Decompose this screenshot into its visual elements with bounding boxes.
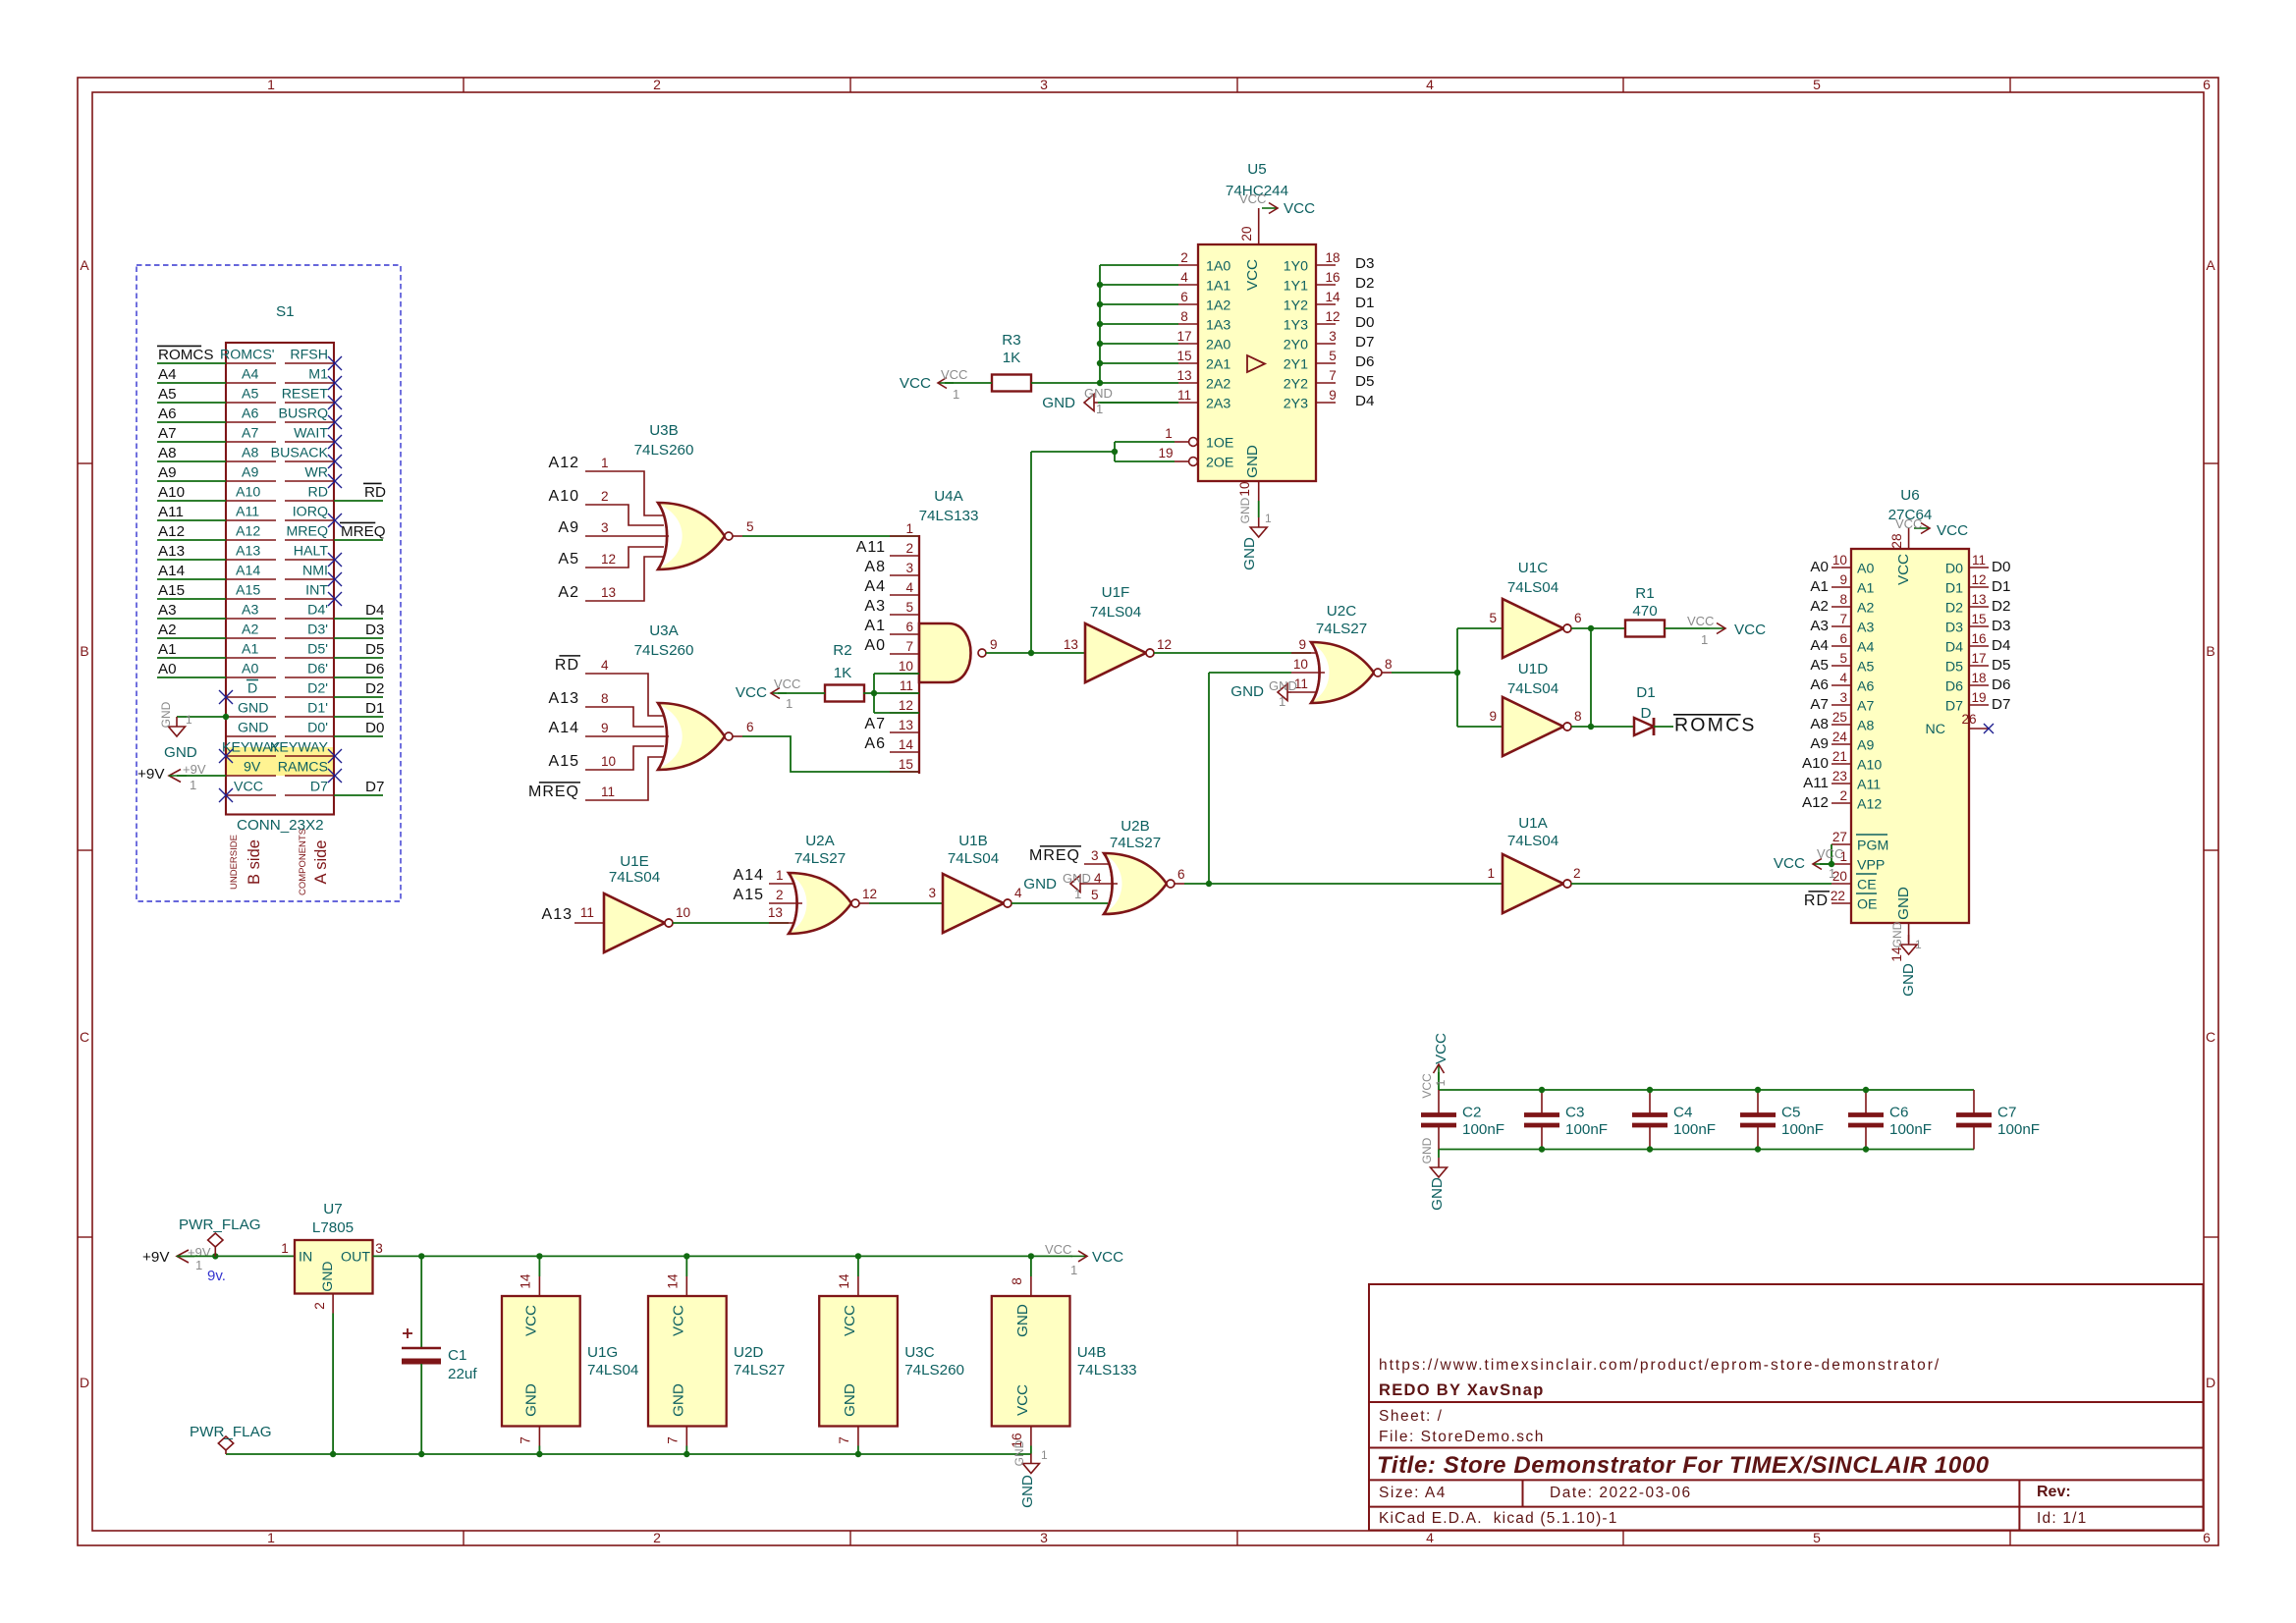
svg-text:8: 8 bbox=[1574, 709, 1582, 724]
svg-text:GND: GND bbox=[238, 701, 269, 717]
svg-text:9: 9 bbox=[990, 637, 998, 652]
svg-text:D: D bbox=[247, 681, 257, 697]
U2C output pin 8 bbox=[1374, 657, 1393, 676]
title block comment REDO BY XavSnap bbox=[1379, 1381, 1545, 1399]
svg-text:10: 10 bbox=[676, 905, 691, 920]
svg-text:R1: R1 bbox=[1635, 585, 1654, 602]
svg-text:3: 3 bbox=[1040, 77, 1048, 92]
svg-text:A11: A11 bbox=[1857, 778, 1881, 793]
svg-text:Rev:: Rev: bbox=[2037, 1484, 2071, 1500]
svg-text:5: 5 bbox=[1489, 611, 1497, 625]
wire U1A out to U6 CE bbox=[1591, 883, 1831, 885]
svg-text:A13: A13 bbox=[549, 690, 579, 707]
svg-text:GND: GND bbox=[1900, 963, 1917, 997]
svg-text:Sheet: /: Sheet: / bbox=[1379, 1408, 1443, 1425]
U3B input pin 3 net A9 bbox=[558, 519, 669, 536]
svg-text:5: 5 bbox=[1813, 77, 1821, 92]
U5 pin 8 1A3 bbox=[1178, 309, 1230, 334]
svg-text:1: 1 bbox=[601, 456, 609, 470]
svg-text:WAIT: WAIT bbox=[294, 426, 328, 442]
svg-text:10: 10 bbox=[1237, 481, 1252, 497]
title block frame bbox=[1369, 1284, 2204, 1531]
svg-text:A3: A3 bbox=[1857, 621, 1874, 636]
svg-text:A11: A11 bbox=[158, 504, 184, 520]
power VCC at R2 bbox=[736, 676, 825, 711]
U2A pin 2 net A15 bbox=[734, 887, 802, 903]
inverter U1D 74LS04 bbox=[1489, 661, 1581, 756]
svg-text:D3: D3 bbox=[1992, 618, 2010, 634]
svg-text:RFSH: RFSH bbox=[290, 348, 328, 363]
U4A pin 5 net A3 bbox=[864, 598, 919, 615]
gate U2A 74LS27 body bbox=[789, 833, 851, 934]
svg-text:PGM: PGM bbox=[1857, 839, 1888, 854]
svg-text:3: 3 bbox=[375, 1241, 383, 1256]
U3A input pin 10 net A15 bbox=[549, 746, 664, 770]
U5 pin 17 2A0 bbox=[1176, 329, 1230, 353]
svg-text:D2: D2 bbox=[1355, 275, 1374, 292]
S1 pin row 17 (A0 / D6') bbox=[157, 661, 334, 677]
svg-text:C4: C4 bbox=[1673, 1105, 1692, 1121]
svg-text:A2: A2 bbox=[242, 622, 258, 638]
svg-text:A3: A3 bbox=[242, 603, 258, 619]
svg-text:GND: GND bbox=[1429, 1177, 1446, 1211]
svg-text:1: 1 bbox=[186, 713, 192, 727]
svg-text:A9: A9 bbox=[242, 465, 258, 481]
wire R2 to U4A pins 10 11 12 bbox=[863, 674, 919, 713]
svg-text:R2: R2 bbox=[833, 642, 851, 659]
U6 pin 6 A4 bbox=[1810, 631, 1874, 656]
svg-text:74LS260: 74LS260 bbox=[904, 1362, 964, 1379]
U5 pin 18 1Y0 label D3 bbox=[1284, 250, 1375, 275]
svg-text:2: 2 bbox=[653, 77, 661, 92]
svg-text:4: 4 bbox=[1180, 270, 1188, 285]
wire U5 OE tie bbox=[1031, 442, 1175, 653]
capacitor C4 100nF bbox=[1632, 1087, 1716, 1153]
svg-text:KiCad E.D.A. kicad (5.1.10)-1: KiCad E.D.A. kicad (5.1.10)-1 bbox=[1379, 1510, 1618, 1527]
capacitor C5 100nF bbox=[1740, 1087, 1824, 1153]
U3A input pin 4 net RD bbox=[555, 656, 664, 716]
svg-text:U3C: U3C bbox=[904, 1344, 934, 1361]
svg-text:13: 13 bbox=[601, 585, 616, 600]
svg-text:18: 18 bbox=[1325, 250, 1339, 265]
svg-text:A9: A9 bbox=[558, 519, 579, 536]
svg-text:D6: D6 bbox=[365, 661, 384, 677]
svg-text:C3: C3 bbox=[1565, 1105, 1584, 1121]
svg-text:U4B: U4B bbox=[1077, 1344, 1107, 1361]
wire U2B out to U1A bbox=[1184, 881, 1503, 887]
svg-text:19: 19 bbox=[1158, 446, 1173, 460]
svg-text:VCC: VCC bbox=[1244, 259, 1261, 291]
U6 pin 27 PGM bbox=[1831, 830, 1888, 854]
svg-text:15: 15 bbox=[1971, 612, 1986, 626]
svg-text:A1: A1 bbox=[1810, 578, 1829, 595]
power VCC at U5 pin 20 bbox=[1239, 191, 1315, 244]
power GND at U5 pin 10 bbox=[1237, 481, 1272, 570]
svg-text:GND: GND bbox=[159, 701, 173, 728]
svg-text:14: 14 bbox=[518, 1273, 532, 1289]
svg-text:74LS27: 74LS27 bbox=[1110, 835, 1161, 851]
svg-text:1: 1 bbox=[1829, 866, 1835, 881]
power flag PWR_FLAG at +9V bbox=[179, 1217, 261, 1256]
svg-text:11: 11 bbox=[900, 678, 913, 693]
svg-text:2: 2 bbox=[776, 888, 784, 902]
svg-text:A1: A1 bbox=[1857, 581, 1874, 597]
svg-text:MREQ: MREQ bbox=[286, 524, 328, 540]
svg-text:1: 1 bbox=[281, 1241, 289, 1256]
regulator U7 L7805 bbox=[281, 1201, 383, 1310]
svg-text:2Y0: 2Y0 bbox=[1284, 338, 1308, 353]
svg-text:A1: A1 bbox=[864, 618, 886, 634]
svg-text:VCC: VCC bbox=[900, 375, 931, 392]
S1 right wire and label D4 bbox=[334, 602, 384, 619]
svg-text:8: 8 bbox=[601, 691, 609, 706]
svg-text:A4: A4 bbox=[1810, 637, 1829, 654]
S1 pin row 10 (A12 / MREQ) bbox=[157, 523, 334, 540]
U3B input pin 12 net A5 bbox=[558, 547, 664, 568]
power GND at C2 rail bbox=[1420, 1137, 1448, 1211]
svg-text:1K: 1K bbox=[834, 665, 852, 681]
svg-text:100nF: 100nF bbox=[1781, 1121, 1824, 1138]
svg-text:C5: C5 bbox=[1781, 1105, 1800, 1121]
wire GND bottom rail bbox=[226, 1453, 1031, 1455]
U6 pin 19 D7 bbox=[1945, 690, 2011, 715]
S1 pin row 20 (GND / D0') bbox=[226, 721, 334, 737]
S1 pin row 13 (A15 / INT) bbox=[157, 582, 342, 606]
capacitor C6 100nF bbox=[1848, 1087, 1932, 1153]
svg-text:File: StoreDemo.sch: File: StoreDemo.sch bbox=[1379, 1429, 1545, 1445]
power GND at U4B pin 16 bbox=[1012, 1439, 1048, 1508]
U6 pin 11 D0 bbox=[1945, 553, 2011, 577]
svg-text:U2B: U2B bbox=[1121, 818, 1150, 835]
svg-text:14: 14 bbox=[899, 737, 914, 752]
svg-text:D5': D5' bbox=[307, 642, 328, 658]
svg-text:GND: GND bbox=[1019, 1475, 1036, 1508]
svg-text:4: 4 bbox=[601, 658, 609, 673]
U3A input pin 8 net A13 bbox=[549, 690, 664, 727]
svg-text:D2: D2 bbox=[1945, 601, 1963, 617]
svg-text:RD: RD bbox=[308, 485, 329, 501]
svg-text:6: 6 bbox=[1177, 867, 1185, 882]
svg-text:26: 26 bbox=[1961, 712, 1976, 727]
title block id bbox=[2037, 1510, 2088, 1527]
svg-text:13: 13 bbox=[1064, 637, 1078, 652]
svg-text:D5: D5 bbox=[1355, 373, 1374, 390]
svg-text:U5: U5 bbox=[1247, 161, 1266, 178]
svg-text:6: 6 bbox=[905, 620, 913, 634]
svg-text:14: 14 bbox=[665, 1273, 680, 1289]
resistor R1 470 bbox=[1625, 585, 1665, 637]
svg-text:U1E: U1E bbox=[620, 853, 649, 870]
gate U3B 74LS260 body bbox=[634, 422, 725, 569]
svg-text:D2: D2 bbox=[365, 680, 384, 697]
U5 pin 15 2A1 bbox=[1176, 349, 1230, 373]
svg-text:A4: A4 bbox=[242, 367, 258, 383]
wire U1C U1D outputs tie bbox=[1571, 625, 1634, 730]
svg-text:10: 10 bbox=[1832, 553, 1848, 568]
svg-text:74LS04: 74LS04 bbox=[1507, 833, 1558, 849]
U4A pin 1 bbox=[890, 521, 919, 536]
svg-text:12: 12 bbox=[1325, 309, 1339, 324]
svg-text:6: 6 bbox=[2203, 77, 2211, 92]
svg-text:7: 7 bbox=[665, 1436, 680, 1444]
U4A pin 15 bbox=[890, 757, 919, 772]
svg-text:9: 9 bbox=[1329, 388, 1337, 403]
wire +9V to U7 IN bbox=[177, 1253, 295, 1259]
svg-text:1: 1 bbox=[1165, 426, 1173, 441]
svg-text:9v.: 9v. bbox=[207, 1268, 226, 1284]
svg-text:15: 15 bbox=[1176, 349, 1191, 363]
capacitor C3 100nF bbox=[1524, 1087, 1608, 1153]
svg-text:A14: A14 bbox=[734, 867, 764, 884]
svg-text:A14: A14 bbox=[236, 564, 260, 579]
U4A pin 2 net A11 bbox=[856, 539, 919, 556]
svg-text:1: 1 bbox=[1070, 1263, 1077, 1277]
svg-text:A4: A4 bbox=[864, 578, 886, 595]
svg-text:16: 16 bbox=[1325, 270, 1339, 285]
U5 pin 2 1A0 bbox=[1178, 250, 1230, 275]
svg-text:VCC: VCC bbox=[736, 684, 767, 701]
svg-text:A3: A3 bbox=[158, 602, 177, 619]
svg-text:A4: A4 bbox=[1857, 640, 1874, 656]
svg-text:12: 12 bbox=[1157, 637, 1172, 652]
svg-text:18: 18 bbox=[1971, 671, 1986, 685]
svg-text:D0: D0 bbox=[1992, 559, 2010, 575]
svg-text:VCC: VCC bbox=[1239, 191, 1266, 206]
power VCC at R3 bbox=[900, 367, 992, 402]
svg-text:15: 15 bbox=[899, 757, 913, 772]
svg-text:10: 10 bbox=[601, 754, 617, 769]
svg-text:A5: A5 bbox=[1857, 660, 1874, 676]
svg-text:GND: GND bbox=[1890, 921, 1904, 947]
svg-text:NMI: NMI bbox=[302, 564, 328, 579]
svg-text:A9: A9 bbox=[1857, 738, 1874, 754]
svg-text:U1G: U1G bbox=[587, 1344, 618, 1361]
svg-text:RD: RD bbox=[364, 484, 386, 501]
svg-text:6: 6 bbox=[1180, 290, 1188, 304]
svg-text:1: 1 bbox=[786, 696, 793, 711]
svg-text:10: 10 bbox=[1293, 657, 1309, 672]
svg-text:D7: D7 bbox=[365, 779, 384, 795]
svg-text:A10: A10 bbox=[158, 484, 185, 501]
svg-text:2Y2: 2Y2 bbox=[1284, 377, 1308, 393]
svg-text:D4: D4 bbox=[1945, 640, 1963, 656]
svg-text:VCC: VCC bbox=[1817, 846, 1843, 861]
svg-text:13: 13 bbox=[768, 905, 783, 920]
svg-text:A5: A5 bbox=[558, 551, 579, 568]
svg-text:BUSRQ: BUSRQ bbox=[279, 406, 328, 422]
svg-text:VCC: VCC bbox=[1734, 622, 1766, 638]
wire U2B out up to U2C pin 10 bbox=[1209, 673, 1291, 884]
svg-text:BUSACK: BUSACK bbox=[271, 446, 329, 461]
svg-text:PWR_FLAG: PWR_FLAG bbox=[179, 1217, 261, 1233]
svg-text:9: 9 bbox=[601, 721, 609, 735]
svg-text:A13: A13 bbox=[158, 543, 185, 560]
U6 pin 22 OE bbox=[1831, 889, 1878, 913]
svg-text:5: 5 bbox=[1813, 1530, 1821, 1545]
svg-text:2A0: 2A0 bbox=[1206, 338, 1230, 353]
svg-text:2: 2 bbox=[1180, 250, 1188, 265]
svg-text:22uf: 22uf bbox=[448, 1366, 477, 1382]
svg-text:VCC: VCC bbox=[941, 367, 967, 382]
svg-text:D: D bbox=[80, 1375, 89, 1390]
svg-text:WR: WR bbox=[304, 465, 328, 481]
U3B input pin 13 net A2 bbox=[558, 557, 664, 601]
U6 pin 25 A8 bbox=[1810, 710, 1874, 734]
U2A pin 13 bbox=[768, 905, 793, 923]
svg-text:11: 11 bbox=[601, 784, 615, 799]
+9V power symbol at S1 bbox=[137, 762, 226, 792]
svg-text:100nF: 100nF bbox=[1997, 1121, 2040, 1138]
svg-text:A1: A1 bbox=[158, 641, 177, 658]
svg-text:https://www.timexsinclair.com/: https://www.timexsinclair.com/product/ep… bbox=[1379, 1357, 1941, 1374]
svg-text:5: 5 bbox=[1091, 888, 1099, 902]
svg-text:13: 13 bbox=[1971, 592, 1986, 607]
S1 pin row 19 (GND / D1') bbox=[226, 701, 334, 718]
svg-text:+9V: +9V bbox=[142, 1249, 170, 1266]
power flag PWR_FLAG at GND rail bbox=[190, 1424, 272, 1454]
S1 pin row 15 (A2 / D3') bbox=[157, 622, 334, 638]
svg-text:D0: D0 bbox=[365, 720, 384, 736]
svg-text:13: 13 bbox=[899, 718, 913, 732]
svg-text:2: 2 bbox=[1839, 788, 1847, 803]
svg-text:A12: A12 bbox=[1802, 794, 1829, 811]
svg-text:D: D bbox=[1641, 705, 1652, 722]
capacitor C1 22uf bbox=[402, 1256, 477, 1457]
svg-text:17: 17 bbox=[1971, 651, 1986, 666]
svg-text:9: 9 bbox=[1839, 572, 1847, 587]
svg-text:A12: A12 bbox=[158, 523, 185, 540]
inverter U1F 74LS04 bbox=[1064, 584, 1172, 682]
wire GND rail for caps bbox=[1439, 1149, 1974, 1151]
svg-text:2: 2 bbox=[653, 1530, 661, 1545]
svg-text:GND: GND bbox=[1420, 1137, 1434, 1163]
svg-text:VCC: VCC bbox=[1092, 1249, 1123, 1266]
svg-text:GND: GND bbox=[1238, 497, 1252, 523]
svg-text:GND: GND bbox=[1063, 871, 1091, 886]
svg-text:A10: A10 bbox=[549, 488, 579, 505]
svg-text:GND: GND bbox=[1042, 395, 1075, 411]
svg-text:ROMCS: ROMCS bbox=[158, 347, 214, 363]
svg-text:19: 19 bbox=[1971, 690, 1986, 705]
svg-text:U1C: U1C bbox=[1518, 560, 1548, 576]
S1 side note COMPONENTS A side bbox=[298, 829, 330, 895]
svg-text:D3: D3 bbox=[365, 622, 384, 638]
U6 pin 18 D6 bbox=[1945, 671, 2011, 695]
svg-text:3: 3 bbox=[1091, 848, 1099, 863]
svg-text:C1: C1 bbox=[448, 1347, 466, 1364]
svg-text:+9V: +9V bbox=[183, 762, 206, 777]
svg-text:D4: D4 bbox=[1355, 393, 1374, 409]
svg-text:1A0: 1A0 bbox=[1206, 259, 1230, 275]
U4A output pin 9 bbox=[978, 637, 998, 657]
wire U7 GND pin 2 bbox=[330, 1294, 336, 1458]
power GND at U5 pin 11 2A3 bbox=[1042, 386, 1178, 416]
wire U4A out to U1F bbox=[986, 650, 1085, 656]
S1 pin row 2 (A4 / M1) bbox=[157, 366, 342, 390]
svg-text:Date: 2022-03-06: Date: 2022-03-06 bbox=[1550, 1485, 1692, 1501]
svg-text:100nF: 100nF bbox=[1462, 1121, 1504, 1138]
svg-text:U1A: U1A bbox=[1518, 815, 1548, 832]
svg-text:A11: A11 bbox=[1803, 775, 1829, 791]
svg-text:4: 4 bbox=[905, 580, 913, 595]
svg-text:100nF: 100nF bbox=[1889, 1121, 1932, 1138]
svg-text:13: 13 bbox=[1176, 368, 1191, 383]
svg-text:B: B bbox=[2206, 643, 2214, 659]
power GND at U6 pin 14 bbox=[1889, 921, 1922, 997]
svg-text:4: 4 bbox=[1094, 871, 1102, 886]
U3A output pin 6 bbox=[725, 720, 754, 740]
S1 pin row 18 (D / D2') bbox=[219, 680, 334, 705]
svg-text:3: 3 bbox=[928, 886, 936, 900]
svg-text:A7: A7 bbox=[864, 716, 886, 732]
svg-text:11: 11 bbox=[580, 905, 594, 920]
inverter U1C 74LS04 bbox=[1489, 560, 1581, 658]
svg-text:23: 23 bbox=[1832, 769, 1847, 784]
svg-text:GND: GND bbox=[1269, 678, 1297, 693]
svg-text:7: 7 bbox=[1839, 612, 1847, 626]
note 9v blue bbox=[207, 1268, 226, 1284]
U5 pin 1 1OE bbox=[1165, 426, 1233, 452]
svg-text:74LS04: 74LS04 bbox=[1507, 680, 1558, 697]
svg-text:1: 1 bbox=[267, 1530, 275, 1545]
svg-text:GND: GND bbox=[842, 1383, 858, 1417]
svg-text:1: 1 bbox=[195, 1258, 202, 1272]
svg-text:1: 1 bbox=[776, 868, 784, 883]
svg-text:74LS04: 74LS04 bbox=[587, 1362, 638, 1379]
S1 pin row 6 (A8 / BUSACK) bbox=[157, 445, 342, 468]
svg-text:6: 6 bbox=[1574, 611, 1582, 625]
svg-text:GND: GND bbox=[164, 744, 197, 761]
connector S1 reference bbox=[276, 303, 295, 320]
svg-text:D1: D1 bbox=[1355, 295, 1374, 311]
svg-text:CONN_23X2: CONN_23X2 bbox=[237, 817, 324, 834]
U6 pin 9 A1 bbox=[1810, 572, 1874, 597]
svg-text:D1: D1 bbox=[1992, 578, 2010, 595]
U4A pin 6 net A1 bbox=[864, 618, 919, 634]
svg-text:U7: U7 bbox=[323, 1201, 342, 1217]
wire U5 input bus bbox=[1097, 265, 1178, 403]
svg-text:D4: D4 bbox=[1992, 637, 2010, 654]
svg-text:6: 6 bbox=[1839, 631, 1847, 646]
U5 pin 5 2Y1 label D6 bbox=[1284, 349, 1375, 373]
U6 pin 26 NC bbox=[1926, 712, 1995, 737]
svg-text:U3A: U3A bbox=[649, 622, 679, 639]
svg-text:D6: D6 bbox=[1992, 676, 2010, 693]
svg-text:A7: A7 bbox=[1810, 696, 1829, 713]
svg-text:D5: D5 bbox=[1992, 657, 2010, 674]
U4A pin 11 bbox=[890, 678, 919, 693]
resistor R2 1K bbox=[825, 642, 864, 702]
svg-text:C7: C7 bbox=[1997, 1105, 2016, 1121]
svg-text:S1: S1 bbox=[276, 303, 295, 320]
svg-text:2: 2 bbox=[905, 541, 913, 556]
svg-text:MREQ: MREQ bbox=[528, 784, 579, 800]
U5 pin 7 2Y2 label D5 bbox=[1284, 368, 1375, 393]
svg-text:5: 5 bbox=[1839, 651, 1847, 666]
S1 pin row 3 (A5 / RESET) bbox=[157, 386, 342, 409]
wire U2C out to U1C U1D bbox=[1392, 628, 1503, 727]
svg-text:RD: RD bbox=[1804, 893, 1829, 909]
svg-text:M1: M1 bbox=[308, 367, 328, 383]
svg-text:A0: A0 bbox=[864, 637, 886, 654]
svg-text:A3: A3 bbox=[1810, 618, 1829, 634]
svg-text:D7: D7 bbox=[1992, 696, 2010, 713]
svg-text:4: 4 bbox=[1014, 886, 1022, 900]
power VCC at R1 bbox=[1665, 614, 1766, 647]
svg-text:R3: R3 bbox=[1002, 332, 1020, 349]
svg-text:A4: A4 bbox=[158, 366, 177, 383]
svg-text:A15: A15 bbox=[734, 887, 764, 903]
